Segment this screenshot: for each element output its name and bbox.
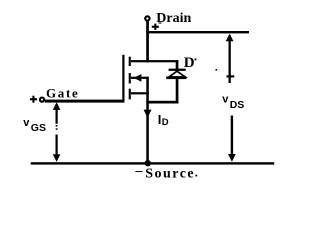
arrow VGS bottom segment: [56, 135, 58, 156]
junction dot at source rail: [145, 160, 151, 166]
svg-text:Gate: Gate: [46, 85, 80, 100]
VDS small dot: [216, 69, 218, 71]
wire diode bottom: [146, 101, 178, 104]
small dash above plus: [159, 22, 162, 23]
diode D1 top lead: [176, 60, 179, 70]
wire top rail: [146, 31, 249, 33]
label + (gate polarity): [30, 98, 37, 100]
wire drain to diode: [146, 60, 178, 62]
transistor Q1 channel bar middle: [129, 73, 131, 84]
dot after Source: [195, 175, 197, 177]
arrow VDS top segment: [229, 35, 231, 83]
svg-text:GS: GS: [31, 122, 46, 134]
arrow VGS bottom head: [53, 154, 61, 162]
svg-text:DS: DS: [230, 99, 245, 111]
VGS gap tick 1: [56, 125, 58, 127]
diode D1 bottom lead: [176, 79, 179, 103]
arrow VGS top segment: [56, 104, 58, 124]
diode D1 cathode bar: [169, 69, 186, 71]
transistor Q1 channel bar bottom: [129, 89, 131, 100]
diode D1 anode bar: [166, 76, 186, 79]
transistor Q1 channel bar top: [129, 57, 131, 66]
wire gate: [45, 100, 125, 103]
diode D1 triangle: [169, 71, 186, 77]
arrow VDS top head: [226, 34, 234, 42]
svg-text:–: –: [135, 164, 144, 179]
gate terminal circle: [40, 98, 44, 102]
label dot after D: [195, 59, 197, 61]
svg-text:Source: Source: [145, 166, 195, 181]
wire source vertical: [146, 77, 149, 163]
svg-text:D: D: [184, 55, 195, 71]
wire drain vertical: [146, 21, 149, 62]
label + (drain polarity): [152, 26, 159, 28]
VGS gap tick 2: [56, 128, 58, 130]
svg-text:D: D: [162, 117, 169, 128]
wire source rail: [31, 162, 275, 164]
drain terminal circle: [145, 16, 149, 20]
svg-text:v: v: [23, 117, 30, 129]
arrow ID: [144, 110, 152, 118]
svg-text:Drain: Drain: [156, 11, 191, 26]
transistor Q1 body stub: [131, 77, 149, 79]
wire drain stub: [131, 60, 149, 62]
VDS tick: [227, 75, 235, 77]
arrow VGS top head: [53, 102, 61, 110]
transistor Q1 source stub: [131, 92, 149, 94]
arrow VDS bottom segment: [231, 116, 233, 155]
transistor Q1 body arrow: [134, 74, 142, 82]
transistor Q1 gate plate: [122, 55, 124, 102]
arrow VDS bottom head: [228, 154, 236, 162]
svg-text:v: v: [222, 93, 229, 105]
